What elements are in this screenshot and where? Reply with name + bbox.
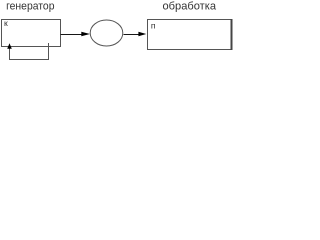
- wire ellipse to processing box: [124, 34, 140, 36]
- processing box: [148, 20, 232, 50]
- arrowhead into processing box: [138, 32, 146, 37]
- svg-text:обработка: обработка: [163, 1, 217, 13]
- background: [0, 0, 233, 63]
- processing box thick right edge: [231, 19, 233, 50]
- generator box: [2, 20, 61, 47]
- arrowhead into ellipse: [81, 32, 90, 37]
- wire box to ellipse: [61, 34, 83, 36]
- svg-text:к: к: [4, 18, 8, 28]
- svg-text:генератор: генератор: [6, 1, 54, 13]
- svg-text:п: п: [151, 21, 156, 31]
- feedback arrowhead up: [7, 43, 12, 49]
- ellipse node: [90, 20, 123, 46]
- feedback wire down: [10, 43, 49, 60]
